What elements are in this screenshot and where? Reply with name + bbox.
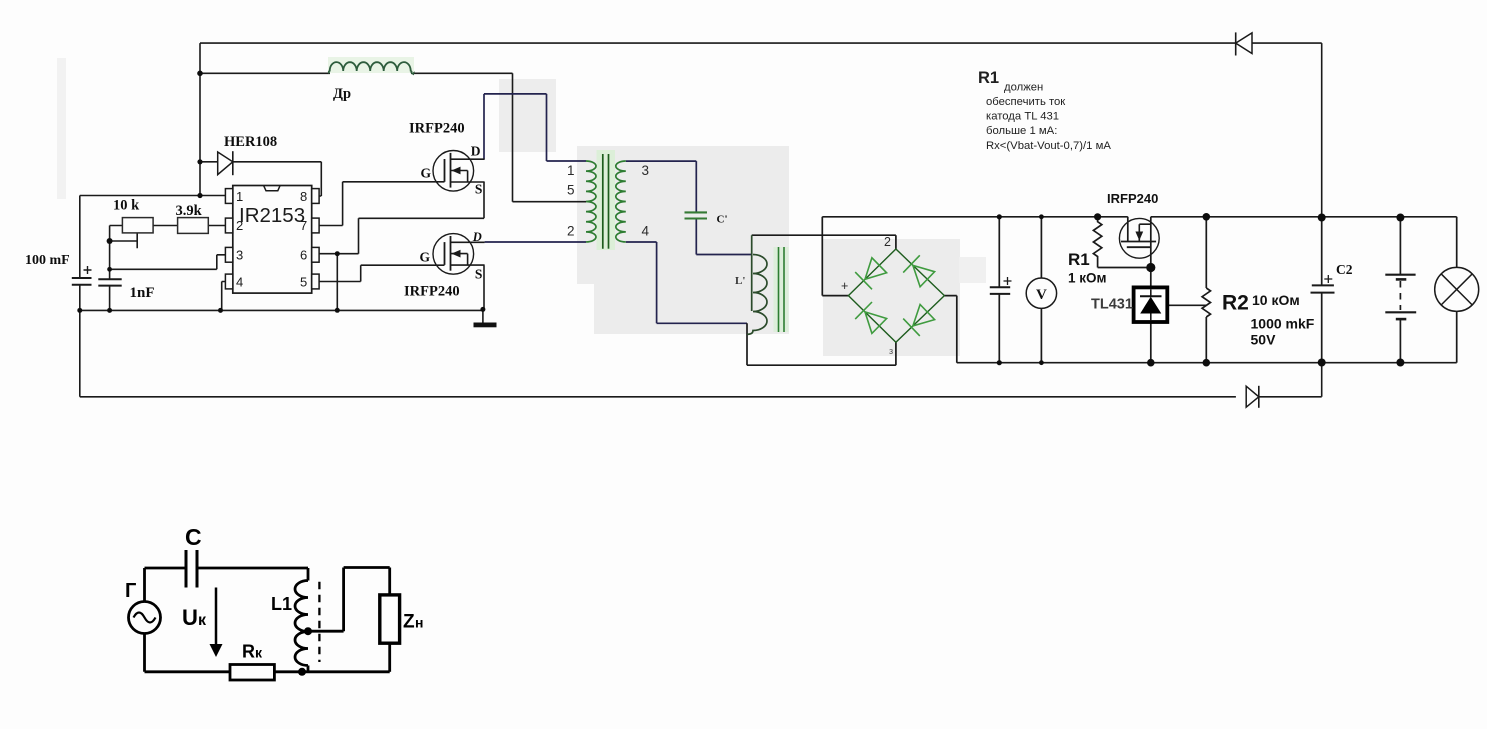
diode D2 top: [1236, 32, 1252, 55]
wire lower top: [145, 568, 309, 602]
capacitor 1nF: [98, 279, 121, 285]
svg-text:8: 8: [300, 189, 307, 204]
svg-text:U: U: [182, 605, 198, 630]
core dashed: [318, 582, 320, 662]
wire bridge plus to top rail: [822, 217, 1128, 296]
wire lamp bottom: [1456, 312, 1458, 363]
capacitor 100mF: [72, 266, 92, 285]
node gnd pin6 junction: [335, 308, 340, 313]
svg-text:катода TL 431: катода TL 431: [986, 111, 1059, 123]
choke Dr coil: [328, 57, 415, 75]
wire cap C leads: [998, 217, 1000, 363]
node pin6 junction: [335, 251, 340, 256]
node Vout battery junction: [1396, 214, 1404, 222]
resistor 10k: [122, 218, 153, 233]
svg-text:C: C: [185, 524, 202, 550]
wire 10k leads: [110, 226, 226, 249]
svg-text:50V: 50V: [1251, 332, 1277, 348]
svg-text:Z: Z: [403, 612, 415, 633]
svg-text:V: V: [1036, 287, 1047, 303]
ground: [474, 323, 497, 328]
svg-text:L1: L1: [271, 594, 292, 614]
svg-text:TL431: TL431: [1091, 297, 1133, 313]
capacitor C2: [1311, 275, 1335, 293]
svg-text:R1: R1: [1068, 250, 1090, 269]
node gnd pin4 junction: [218, 308, 223, 313]
svg-text:2: 2: [884, 235, 891, 249]
bridge rectifier: [848, 249, 944, 342]
node gnd source junction: [480, 307, 485, 312]
bridge diode bottom-right: [903, 305, 934, 336]
svg-text:2: 2: [567, 224, 575, 239]
svg-text:C': C': [717, 214, 728, 226]
battery: [1385, 275, 1416, 319]
node Vout C2 junction: [1318, 214, 1326, 222]
wires main: [80, 43, 1322, 397]
bridge diode top-right: [903, 255, 934, 286]
lower circuit: [129, 550, 400, 680]
svg-text:3: 3: [236, 248, 243, 263]
svg-text:IRFP240: IRFP240: [1107, 191, 1158, 206]
svg-text:IRFP240: IRFP240: [404, 284, 460, 300]
capacitor C lower: [186, 550, 197, 588]
svg-text:6: 6: [300, 248, 307, 263]
pin numbers 1-8: [236, 189, 307, 290]
wire Q3 node vertical: [1128, 217, 1151, 288]
node Vout voltmeter junction: [1039, 214, 1044, 219]
resistor Rk: [230, 665, 274, 681]
wire T1 pin4: [626, 242, 747, 323]
svg-text:Rx<(Vbat-Vout-0,7)/1 мА: Rx<(Vbat-Vout-0,7)/1 мА: [986, 140, 1111, 152]
wire C' to L': [696, 219, 751, 255]
wire L' bottom to bridge: [747, 323, 896, 365]
wire lower bottom: [145, 634, 390, 672]
svg-text:обеспечить ток: обеспечить ток: [986, 96, 1065, 108]
diode HER108: [218, 151, 233, 175]
wire C2 leads: [1321, 218, 1323, 363]
svg-text:C2: C2: [1336, 262, 1353, 277]
node CT pin3 junction: [107, 267, 112, 272]
resistor R1 zigzag: [1093, 217, 1101, 261]
wires navy: [484, 94, 752, 323]
transformer T1: [586, 150, 626, 250]
svg-text:S: S: [475, 182, 483, 197]
background patches: [57, 58, 986, 356]
wire TL431 bottom: [1150, 322, 1152, 363]
wire R1 bottom link: [1098, 261, 1151, 268]
wire drain2 to T1 pin2: [485, 241, 586, 243]
node gate Q3 junction: [1146, 263, 1155, 272]
svg-text:1000 mkF: 1000 mkF: [1251, 316, 1315, 332]
svg-text:1nF: 1nF: [130, 285, 155, 301]
mosfet Q2: [433, 234, 485, 275]
wire drain1 to T1 pin1: [484, 94, 586, 161]
IC IR2153: [225, 186, 319, 294]
svg-text:3: 3: [642, 163, 650, 178]
wire voltmeter leads: [1040, 217, 1042, 363]
node 10k wiper junction: [107, 238, 113, 244]
node Vminus R2 junction: [1203, 359, 1211, 367]
svg-text:Г: Г: [125, 580, 136, 602]
svg-text:5: 5: [567, 183, 575, 198]
svg-text:IRFP240: IRFP240: [409, 121, 465, 137]
wire R2 leads: [1205, 217, 1207, 363]
node VCC choke junction: [197, 71, 203, 77]
diode D3 bottom: [1246, 386, 1259, 408]
wire 1nF branch: [109, 241, 111, 310]
svg-text:10 k: 10 k: [113, 198, 140, 214]
svg-text:Др: Др: [333, 86, 351, 102]
svg-text:1: 1: [236, 189, 243, 204]
svg-text:5: 5: [300, 275, 307, 290]
resistor 3.9k: [178, 218, 209, 234]
node L1 bottom junction: [298, 668, 306, 676]
svg-text:G: G: [420, 250, 431, 265]
wire gnd rail: [80, 309, 483, 322]
mosfet Q1: [433, 151, 485, 192]
svg-text:должен: должен: [1004, 82, 1043, 94]
svg-text:4: 4: [642, 224, 650, 239]
svg-text:10 кОм: 10 кОм: [1252, 292, 1300, 308]
wire T1 pin3 to C': [626, 161, 697, 212]
svg-text:1 кОм: 1 кОм: [1068, 271, 1107, 286]
svg-text:G: G: [421, 166, 432, 181]
wire top rail right: [1151, 217, 1457, 268]
inductor L1: [295, 581, 308, 672]
node Vminus C2 junction: [1318, 359, 1326, 367]
svg-text:3.9k: 3.9k: [176, 203, 203, 219]
svg-text:L': L': [735, 275, 745, 287]
wire bottom long: [80, 363, 1322, 397]
svg-text:4: 4: [236, 275, 243, 290]
wire source2 to gnd: [483, 265, 485, 309]
node Vout cap junction: [997, 214, 1002, 219]
voltmeter V: [1026, 278, 1056, 308]
wire pin6 node: [319, 182, 484, 310]
svg-text:больше 1 мА:: больше 1 мА:: [986, 125, 1057, 137]
IC pins 1-8: [225, 189, 319, 289]
wire top rail: [200, 43, 1322, 217]
generator G: [129, 602, 161, 634]
node pin1 VCC junction: [197, 193, 202, 198]
capacitor C': [685, 212, 708, 218]
load Zn: [380, 595, 400, 643]
wire TL431 to R2: [1167, 304, 1206, 306]
wire bridge minus to bottom rail: [944, 296, 1456, 363]
node Vout R1 junction: [1094, 213, 1101, 220]
wire pin7 to gate1: [319, 182, 444, 226]
wire VCC to choke: [200, 73, 586, 201]
node L1 tap junction: [304, 627, 312, 635]
regulator TL431: [1134, 287, 1168, 322]
wire pin5 to gate2: [319, 265, 444, 281]
wire left column: [79, 196, 81, 397]
svg-text:к: к: [255, 645, 263, 661]
arrow Uk: [215, 588, 218, 647]
svg-text:к: к: [198, 612, 207, 629]
bridge diode bottom-left: [855, 302, 886, 333]
arrow Uk head: [210, 644, 223, 657]
svg-text:R1: R1: [978, 69, 999, 87]
capacitor filter: [990, 277, 1012, 294]
node Vminus battery junction: [1396, 359, 1404, 367]
svg-text:S: S: [475, 267, 483, 282]
svg-text:н: н: [415, 615, 423, 631]
lamp: [1435, 267, 1479, 311]
wire L1 tap: [308, 568, 390, 632]
node Vminus cap junction: [997, 360, 1002, 365]
wire battery leads: [1399, 218, 1401, 363]
node Vminus TL431 junction: [1147, 359, 1155, 367]
bridge diode top-left: [855, 258, 886, 290]
svg-text:HER108: HER108: [224, 134, 277, 150]
note R1 requirement text: [978, 69, 1111, 152]
svg-text:D: D: [471, 144, 481, 159]
svg-text:+: +: [841, 279, 848, 293]
node HER108 anode junction: [197, 159, 202, 164]
svg-text:1: 1: [567, 163, 575, 178]
node gnd left junction: [77, 308, 82, 313]
node Vout R2 junction: [1203, 213, 1211, 221]
svg-text:R: R: [242, 642, 255, 662]
wire L' top to bridge: [752, 235, 896, 249]
svg-text:з: з: [889, 346, 893, 356]
resistor R2 zigzag: [1202, 288, 1210, 317]
wire left vertical: [199, 43, 201, 195]
wire HER108 branch: [200, 162, 321, 196]
node gnd 1nF junction: [107, 308, 112, 313]
inductor L': [747, 235, 789, 334]
node Vminus voltmeter junction: [1039, 360, 1044, 365]
mosfet Q3: [1119, 218, 1159, 258]
svg-text:D: D: [472, 230, 482, 244]
wire pin4: [222, 282, 226, 311]
svg-text:IR2153: IR2153: [239, 204, 305, 227]
wire pin3: [110, 255, 226, 269]
svg-text:100 mF: 100 mF: [25, 253, 70, 268]
wire pin1: [80, 195, 226, 197]
svg-text:R2: R2: [1222, 292, 1249, 315]
